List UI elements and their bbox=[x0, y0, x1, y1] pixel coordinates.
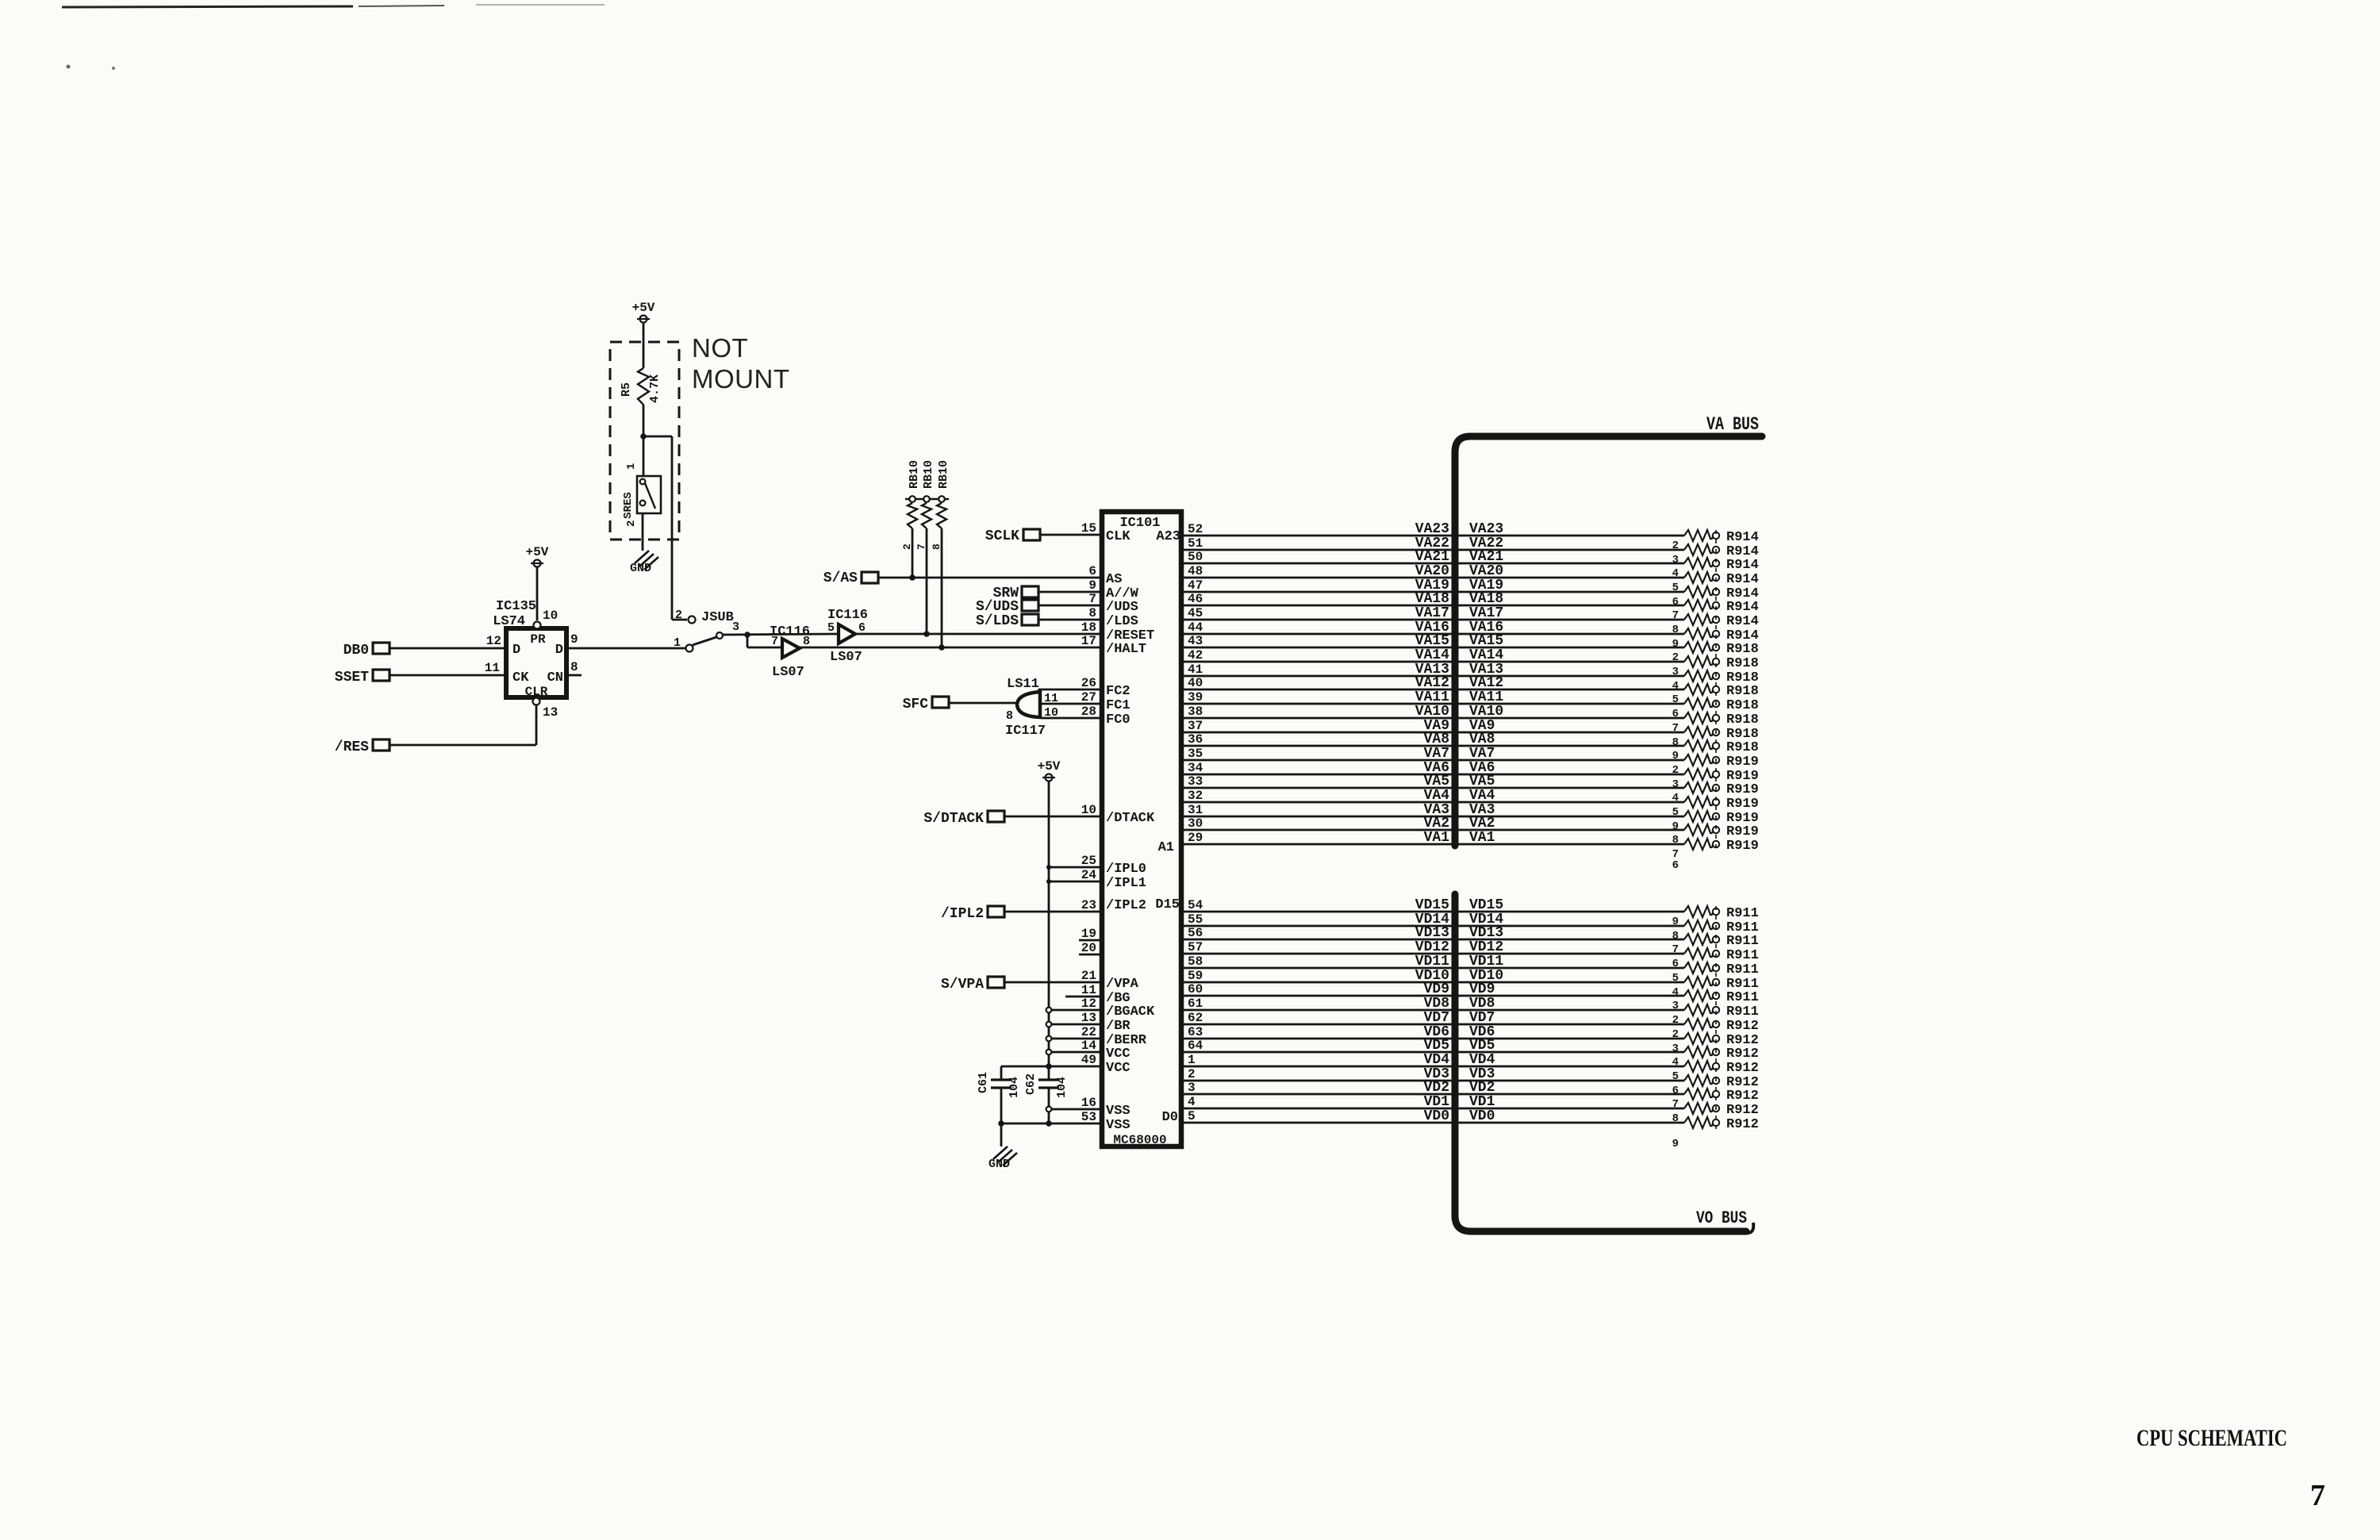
wire VSS pin53 / ground bus bbox=[998, 1120, 1100, 1127]
wire VD8 bbox=[1184, 996, 1684, 1012]
svg-text:VA2: VA2 bbox=[1469, 816, 1495, 831]
resistor R912 (VD7 pullup) bbox=[1672, 1019, 1759, 1041]
svg-text:2: 2 bbox=[625, 520, 638, 527]
svg-text:VD7: VD7 bbox=[1424, 1010, 1449, 1026]
svg-text:R912: R912 bbox=[1726, 1103, 1759, 1118]
svg-text:VA11: VA11 bbox=[1469, 689, 1503, 705]
svg-text:104: 104 bbox=[1008, 1077, 1021, 1098]
svg-text:/BGACK: /BGACK bbox=[1106, 1004, 1155, 1020]
node junction R5/SRES/JSUB branch bbox=[640, 433, 647, 440]
resistor R911 (VD8 pullup) bbox=[1672, 1004, 1759, 1027]
svg-text:VD4: VD4 bbox=[1424, 1052, 1450, 1068]
svg-text:R914: R914 bbox=[1726, 558, 1759, 573]
wire S/AS to AS bbox=[878, 577, 1100, 579]
wire VCC pin14 bbox=[1046, 1050, 1100, 1055]
svg-text:4.7K: 4.7K bbox=[648, 374, 662, 403]
resistor R912 (VD2 pullup) bbox=[1672, 1089, 1759, 1111]
svg-text:VA1: VA1 bbox=[1469, 830, 1495, 846]
svg-text:IC116: IC116 bbox=[770, 624, 810, 639]
node junction to lower buffer bbox=[744, 632, 781, 647]
svg-text:VA23: VA23 bbox=[1469, 521, 1503, 537]
svg-text:S/DTACK: S/DTACK bbox=[923, 811, 984, 827]
resistor R914 (VA22 pullup) bbox=[1672, 544, 1759, 566]
svg-text:/IPL0: /IPL0 bbox=[1106, 862, 1146, 877]
svg-text:8: 8 bbox=[1672, 736, 1679, 749]
wire VSS pin16 bbox=[1046, 1107, 1100, 1112]
svg-text:16: 16 bbox=[1081, 1096, 1096, 1110]
NOT MOUNT dashed box bbox=[610, 342, 679, 540]
svg-text:VCC: VCC bbox=[1106, 1061, 1130, 1076]
svg-text:64: 64 bbox=[1188, 1039, 1203, 1053]
wire VD15 bbox=[1184, 897, 1684, 913]
svg-text:CLR: CLR bbox=[525, 685, 548, 699]
wire VD10 bbox=[1184, 968, 1684, 984]
wire VA10 bbox=[1184, 704, 1684, 720]
svg-text:/LDS: /LDS bbox=[1106, 614, 1138, 629]
svg-text:10: 10 bbox=[1081, 803, 1096, 817]
svg-text:9: 9 bbox=[1672, 638, 1679, 651]
svg-text:R919: R919 bbox=[1726, 797, 1759, 812]
svg-text:VO BUS: VO BUS bbox=[1696, 1208, 1747, 1228]
wire VA13 bbox=[1184, 662, 1684, 678]
svg-text:VA8: VA8 bbox=[1424, 732, 1449, 747]
svg-text:3: 3 bbox=[1188, 1081, 1196, 1095]
svg-text:6: 6 bbox=[1672, 859, 1679, 872]
svg-text:57: 57 bbox=[1188, 940, 1203, 954]
svg-text:VD4: VD4 bbox=[1469, 1052, 1495, 1068]
svg-text:VA7: VA7 bbox=[1469, 746, 1495, 762]
svg-text:A23: A23 bbox=[1156, 529, 1180, 544]
svg-text:VD13: VD13 bbox=[1415, 925, 1449, 941]
svg-text:VD15: VD15 bbox=[1469, 897, 1503, 913]
svg-text:R914: R914 bbox=[1726, 614, 1759, 629]
svg-text:S/LDS: S/LDS bbox=[976, 613, 1019, 629]
svg-text:SFC: SFC bbox=[903, 697, 929, 712]
wire VD12 bbox=[1184, 939, 1684, 955]
svg-text:IC135: IC135 bbox=[496, 599, 536, 614]
svg-text:4: 4 bbox=[1672, 986, 1679, 999]
svg-text:51: 51 bbox=[1188, 536, 1203, 551]
svg-text:LS74: LS74 bbox=[493, 614, 525, 629]
svg-text:VD11: VD11 bbox=[1415, 954, 1449, 970]
svg-text:59: 59 bbox=[1188, 969, 1203, 983]
resistor R911 (VD15 pullup) bbox=[1672, 906, 1759, 928]
svg-text:9: 9 bbox=[1672, 1138, 1679, 1150]
svg-text:21: 21 bbox=[1081, 969, 1096, 983]
wire VA18 bbox=[1184, 591, 1684, 607]
resistor R912 (VD5 pullup) bbox=[1672, 1047, 1759, 1069]
wire to ground bbox=[1000, 1123, 1003, 1146]
wire VA7 bbox=[1184, 746, 1684, 762]
svg-text:LS07: LS07 bbox=[772, 665, 804, 680]
resistor R918 (VA11 pullup) bbox=[1672, 698, 1759, 720]
svg-text:56: 56 bbox=[1188, 926, 1203, 940]
connector SCLK bbox=[985, 528, 1040, 544]
svg-text:R918: R918 bbox=[1726, 656, 1759, 671]
resistor R919 (VA4 pullup) bbox=[1672, 797, 1759, 819]
svg-text:R911: R911 bbox=[1726, 906, 1759, 921]
svg-text:+5V: +5V bbox=[526, 545, 549, 559]
svg-text:55: 55 bbox=[1188, 912, 1203, 927]
svg-text:CK: CK bbox=[512, 670, 529, 686]
svg-text:A1: A1 bbox=[1158, 840, 1174, 855]
svg-text:/BR: /BR bbox=[1106, 1019, 1130, 1034]
svg-text:MOUNT: MOUNT bbox=[692, 364, 789, 394]
resistor R5 4.7K bbox=[620, 368, 662, 405]
svg-text:3: 3 bbox=[732, 620, 739, 634]
resistor R918 (VA8 pullup) bbox=[1672, 740, 1759, 762]
wire VA8 bbox=[1184, 732, 1684, 747]
svg-text:VA5: VA5 bbox=[1469, 774, 1495, 789]
svg-text:VA4: VA4 bbox=[1469, 788, 1495, 804]
svg-text:42: 42 bbox=[1188, 648, 1203, 662]
svg-text:5: 5 bbox=[1188, 1109, 1196, 1123]
svg-text:20: 20 bbox=[1081, 941, 1096, 955]
svg-text:31: 31 bbox=[1188, 803, 1203, 817]
svg-text:VA12: VA12 bbox=[1469, 675, 1503, 691]
wire VA15 bbox=[1184, 633, 1684, 649]
svg-text:RB10: RB10 bbox=[937, 460, 950, 489]
svg-text:27: 27 bbox=[1081, 690, 1096, 705]
svg-text:8: 8 bbox=[1006, 709, 1013, 723]
connector SFC bbox=[903, 697, 949, 712]
svg-text:/IPL2: /IPL2 bbox=[1106, 898, 1146, 913]
resistor R914 (VA18 pullup) bbox=[1672, 600, 1759, 622]
switch JSUB bbox=[674, 609, 739, 652]
svg-text:CN: CN bbox=[547, 670, 563, 686]
capacitor C61 104 bbox=[977, 1066, 1021, 1124]
connector S/DTACK bbox=[923, 811, 1004, 827]
wire /IPL0 pullup bbox=[1046, 865, 1100, 870]
resistor R918 (VA13 pullup) bbox=[1672, 670, 1759, 693]
resistor R912 (VD6 pullup) bbox=[1672, 1033, 1759, 1055]
svg-text:R919: R919 bbox=[1726, 824, 1759, 839]
wire VA6 bbox=[1184, 760, 1684, 776]
resistor R912 (VD4 pullup) bbox=[1672, 1061, 1759, 1083]
VA BUS line bbox=[1455, 436, 1762, 846]
wire /BGACK pullup bbox=[1046, 1008, 1100, 1013]
svg-text:R919: R919 bbox=[1726, 839, 1759, 854]
svg-text:VA18: VA18 bbox=[1415, 591, 1449, 607]
svg-text:6: 6 bbox=[1088, 564, 1096, 578]
resistor R911 (VD10 pullup) bbox=[1672, 977, 1759, 999]
resistor R919 (VA7 pullup) bbox=[1672, 755, 1759, 777]
svg-text:R918: R918 bbox=[1726, 712, 1759, 728]
wire VA19 bbox=[1184, 578, 1684, 593]
connector SSET bbox=[335, 670, 390, 686]
svg-text:36: 36 bbox=[1188, 732, 1203, 747]
connector S/LDS bbox=[976, 613, 1038, 629]
svg-text:S/UDS: S/UDS bbox=[976, 599, 1019, 615]
svg-text:VD0: VD0 bbox=[1469, 1108, 1495, 1124]
wire VD1 bbox=[1184, 1094, 1684, 1110]
stub pin 20 bbox=[1079, 954, 1100, 956]
svg-text:R912: R912 bbox=[1726, 1061, 1759, 1076]
wire VA17 bbox=[1184, 605, 1684, 621]
wire VA16 bbox=[1184, 620, 1684, 636]
svg-text:6: 6 bbox=[1672, 596, 1679, 609]
svg-text:R911: R911 bbox=[1726, 1004, 1759, 1020]
svg-text:22: 22 bbox=[1081, 1025, 1096, 1039]
svg-text:VA2: VA2 bbox=[1424, 816, 1449, 831]
svg-text:4: 4 bbox=[1672, 680, 1679, 693]
svg-text:LS07: LS07 bbox=[830, 650, 862, 665]
svg-text:R914: R914 bbox=[1726, 600, 1759, 615]
svg-text:60: 60 bbox=[1188, 982, 1203, 997]
svg-text:48: 48 bbox=[1188, 564, 1203, 578]
svg-text:VA20: VA20 bbox=[1415, 563, 1449, 579]
svg-text:VD5: VD5 bbox=[1424, 1038, 1449, 1054]
svg-text:R5: R5 bbox=[620, 382, 633, 397]
svg-text:D: D bbox=[555, 643, 563, 658]
svg-text:1: 1 bbox=[625, 463, 638, 470]
svg-text:7: 7 bbox=[2310, 1479, 2325, 1512]
wire /BR pullup bbox=[1046, 1022, 1100, 1027]
svg-text:JSUB: JSUB bbox=[701, 610, 734, 625]
svg-text:VA17: VA17 bbox=[1469, 605, 1503, 621]
wire upper buffer to /RESET bbox=[855, 633, 1100, 636]
svg-text:VA4: VA4 bbox=[1424, 788, 1450, 804]
wire VA2 bbox=[1184, 816, 1684, 831]
svg-text:32: 32 bbox=[1188, 789, 1203, 803]
buffer IC116 LS07 (upper, pins 5-6) bbox=[827, 608, 868, 665]
svg-text:39: 39 bbox=[1188, 690, 1203, 705]
svg-text:47: 47 bbox=[1188, 578, 1203, 593]
svg-text:VSS: VSS bbox=[1106, 1118, 1130, 1133]
svg-text:VA12: VA12 bbox=[1415, 675, 1449, 691]
svg-text:9: 9 bbox=[1088, 578, 1096, 593]
svg-text:R918: R918 bbox=[1726, 698, 1759, 713]
wire /RES to IC135 CLR bbox=[390, 705, 536, 745]
svg-text:FC1: FC1 bbox=[1106, 698, 1130, 713]
svg-text:+5V: +5V bbox=[632, 301, 655, 315]
svg-text:23: 23 bbox=[1081, 898, 1096, 912]
svg-text:/VPA: /VPA bbox=[1106, 977, 1139, 992]
svg-text:8: 8 bbox=[570, 660, 578, 674]
wire FC2 bbox=[1038, 689, 1100, 693]
svg-text:30: 30 bbox=[1188, 816, 1203, 831]
svg-text:S/VPA: S/VPA bbox=[941, 977, 984, 993]
svg-text:29: 29 bbox=[1188, 831, 1203, 845]
svg-text:VA8: VA8 bbox=[1469, 732, 1495, 747]
wire branch to JSUB pin2 bbox=[643, 436, 687, 620]
svg-text:VA23: VA23 bbox=[1415, 521, 1449, 537]
svg-text:GND: GND bbox=[988, 1158, 1010, 1171]
connector /IPL2 bbox=[941, 906, 1004, 922]
svg-text:IC116: IC116 bbox=[827, 608, 868, 623]
wire IC135 Q output to JSUB pin1 bbox=[566, 647, 685, 650]
resistor network common line (VD) bbox=[1715, 906, 1717, 1135]
svg-text:33: 33 bbox=[1188, 774, 1203, 789]
svg-text:CPU SCHEMATIC: CPU SCHEMATIC bbox=[2136, 1425, 2287, 1451]
wire VD5 bbox=[1184, 1038, 1684, 1054]
resistor R914 (VA19 pullup) bbox=[1672, 586, 1759, 609]
wire RB10-1 to S/AS line bbox=[909, 528, 916, 581]
wire SRW to A//W bbox=[1038, 591, 1100, 593]
ground below C61 bbox=[988, 1146, 1017, 1171]
svg-text:/UDS: /UDS bbox=[1106, 600, 1138, 615]
wire RB10-3 to /HALT line bbox=[939, 528, 945, 651]
wire FC0 bbox=[1042, 717, 1100, 720]
wire SCLK to CLK bbox=[1040, 534, 1100, 536]
svg-text:VD9: VD9 bbox=[1469, 981, 1495, 997]
svg-text:VD8: VD8 bbox=[1424, 996, 1449, 1012]
svg-text:R911: R911 bbox=[1726, 948, 1759, 963]
wire S/LDS to /LDS bbox=[1038, 619, 1100, 621]
resistor R911 (VD9 pullup) bbox=[1672, 990, 1759, 1012]
svg-text:R912: R912 bbox=[1726, 1047, 1759, 1062]
wire SFC to gate output bbox=[949, 702, 1017, 705]
resistor R918 (VA15 pullup) bbox=[1672, 642, 1759, 664]
wire VA22 bbox=[1184, 536, 1684, 551]
svg-text:R914: R914 bbox=[1726, 572, 1759, 587]
svg-text:CLK: CLK bbox=[1106, 529, 1130, 544]
svg-text:44: 44 bbox=[1188, 620, 1203, 635]
connector S/UDS bbox=[976, 599, 1038, 615]
wire /IPL2 bbox=[1004, 911, 1100, 913]
svg-text:R918: R918 bbox=[1726, 740, 1759, 755]
wire S/DTACK to /DTACK bbox=[1004, 816, 1100, 818]
svg-text:11: 11 bbox=[1081, 983, 1096, 997]
CPU IC101 MC68000 bbox=[1102, 512, 1181, 1147]
svg-text:40: 40 bbox=[1188, 676, 1203, 690]
svg-text:1: 1 bbox=[674, 636, 681, 650]
svg-text:9: 9 bbox=[1672, 820, 1679, 833]
svg-text:VD12: VD12 bbox=[1469, 939, 1503, 955]
svg-text:R912: R912 bbox=[1726, 1089, 1759, 1104]
svg-text:R919: R919 bbox=[1726, 755, 1759, 770]
svg-text:VA21: VA21 bbox=[1415, 549, 1449, 565]
svg-text:VA14: VA14 bbox=[1469, 647, 1503, 663]
wire VD14 bbox=[1184, 912, 1684, 927]
svg-text:24: 24 bbox=[1081, 868, 1097, 882]
+5V supply for IC135 PR bbox=[526, 545, 549, 620]
svg-text:VA17: VA17 bbox=[1415, 605, 1449, 621]
svg-text:R912: R912 bbox=[1726, 1019, 1759, 1034]
connector /RES bbox=[335, 739, 390, 755]
VD BUS line bbox=[1455, 894, 1746, 1231]
wire lower buffer to /HALT bbox=[800, 647, 1100, 649]
svg-text:28: 28 bbox=[1081, 705, 1096, 719]
wire VD2 bbox=[1184, 1080, 1684, 1096]
resistor R914 (VA21 pullup) bbox=[1672, 558, 1759, 580]
svg-text:12: 12 bbox=[486, 634, 501, 648]
resistor R914 (VA16 pullup) bbox=[1672, 628, 1759, 651]
svg-text:VA21: VA21 bbox=[1469, 549, 1503, 565]
resistor R911 (VD11 pullup) bbox=[1672, 962, 1759, 985]
svg-text:26: 26 bbox=[1081, 676, 1096, 690]
resistor R919 (VA3 pullup) bbox=[1672, 811, 1759, 833]
svg-text:VA10: VA10 bbox=[1469, 704, 1503, 720]
svg-text:62: 62 bbox=[1188, 1011, 1203, 1025]
svg-text:VD15: VD15 bbox=[1415, 897, 1449, 913]
svg-text:25: 25 bbox=[1081, 854, 1096, 868]
wire VA1 bbox=[1184, 830, 1684, 846]
svg-text:15: 15 bbox=[1081, 521, 1096, 536]
svg-text:D0: D0 bbox=[1162, 1110, 1178, 1125]
svg-text:C62: C62 bbox=[1024, 1073, 1038, 1095]
svg-text:19: 19 bbox=[1081, 927, 1096, 941]
svg-text:MC68000: MC68000 bbox=[1113, 1133, 1166, 1147]
svg-text:3: 3 bbox=[1672, 1043, 1679, 1055]
resistor R914 (VA23 pullup) bbox=[1672, 530, 1759, 552]
wire VD4 bbox=[1184, 1052, 1684, 1068]
svg-text:VA15: VA15 bbox=[1415, 633, 1449, 649]
svg-text:S/AS: S/AS bbox=[823, 570, 858, 586]
wire VA3 bbox=[1184, 802, 1684, 818]
svg-text:43: 43 bbox=[1188, 634, 1203, 648]
svg-text:34: 34 bbox=[1188, 761, 1203, 775]
wire SSET to IC135 CK input bbox=[390, 674, 505, 677]
svg-text:VD9: VD9 bbox=[1424, 981, 1449, 997]
svg-text:R914: R914 bbox=[1726, 530, 1759, 545]
resistor R911 (VD12 pullup) bbox=[1672, 948, 1759, 970]
svg-text:14: 14 bbox=[1081, 1039, 1097, 1053]
wire VD9 bbox=[1184, 981, 1684, 997]
+5V supply for R5 bbox=[632, 301, 655, 368]
wire VA23 bbox=[1184, 521, 1684, 537]
svg-text:VSS: VSS bbox=[1106, 1104, 1130, 1119]
svg-text:35: 35 bbox=[1188, 747, 1203, 761]
svg-text:VA20: VA20 bbox=[1469, 563, 1503, 579]
svg-text:AS: AS bbox=[1106, 572, 1122, 587]
svg-text:12: 12 bbox=[1081, 997, 1096, 1011]
svg-text:SCLK: SCLK bbox=[985, 528, 1019, 544]
svg-text:VA11: VA11 bbox=[1415, 689, 1449, 705]
svg-text:49: 49 bbox=[1081, 1053, 1096, 1067]
wire VCC pin49 rail bbox=[1001, 1063, 1100, 1070]
svg-text:FC0: FC0 bbox=[1106, 712, 1130, 728]
svg-text:VCC: VCC bbox=[1106, 1047, 1130, 1062]
svg-text:4: 4 bbox=[1188, 1095, 1196, 1109]
svg-text:VD7: VD7 bbox=[1469, 1010, 1495, 1026]
svg-text:13: 13 bbox=[543, 705, 558, 720]
svg-text:45: 45 bbox=[1188, 606, 1203, 620]
svg-text:RB10: RB10 bbox=[922, 460, 935, 489]
stub pin 19 bbox=[1079, 939, 1100, 942]
wire VA12 bbox=[1184, 675, 1684, 691]
capacitor C62 104 bbox=[1024, 1066, 1069, 1124]
resistor R919 (VA6 pullup) bbox=[1672, 769, 1759, 791]
svg-text:C61: C61 bbox=[977, 1072, 990, 1093]
svg-text:VD0: VD0 bbox=[1424, 1108, 1449, 1124]
svg-text:PR: PR bbox=[530, 632, 546, 647]
resistor network RB10 x3 bbox=[901, 460, 950, 550]
wire DB0 to IC135 D input bbox=[390, 647, 505, 650]
svg-text:SSET: SSET bbox=[335, 670, 369, 686]
wire VD3 bbox=[1184, 1066, 1684, 1082]
svg-text:VD2: VD2 bbox=[1424, 1080, 1449, 1096]
wire VD7 bbox=[1184, 1010, 1684, 1026]
svg-text:FC2: FC2 bbox=[1106, 684, 1130, 699]
resistor R919 (VA2 pullup) bbox=[1672, 824, 1759, 847]
svg-text:R911: R911 bbox=[1726, 934, 1759, 949]
svg-text:R911: R911 bbox=[1726, 990, 1759, 1005]
svg-text:VD12: VD12 bbox=[1415, 939, 1449, 955]
resistor R919 (VA1 pullup) bbox=[1672, 839, 1759, 861]
connector S/AS bbox=[823, 570, 878, 586]
wire VA14 bbox=[1184, 647, 1684, 663]
wire VA9 bbox=[1184, 718, 1684, 734]
svg-text:VA15: VA15 bbox=[1469, 633, 1503, 649]
wire VA11 bbox=[1184, 689, 1684, 705]
svg-text:GND: GND bbox=[630, 562, 651, 575]
svg-text:104: 104 bbox=[1055, 1077, 1069, 1098]
wire R5 to SRES bbox=[643, 405, 645, 476]
svg-text:2: 2 bbox=[1188, 1067, 1196, 1081]
svg-text:5: 5 bbox=[827, 621, 835, 635]
resistor R914 (VA20 pullup) bbox=[1672, 572, 1759, 594]
